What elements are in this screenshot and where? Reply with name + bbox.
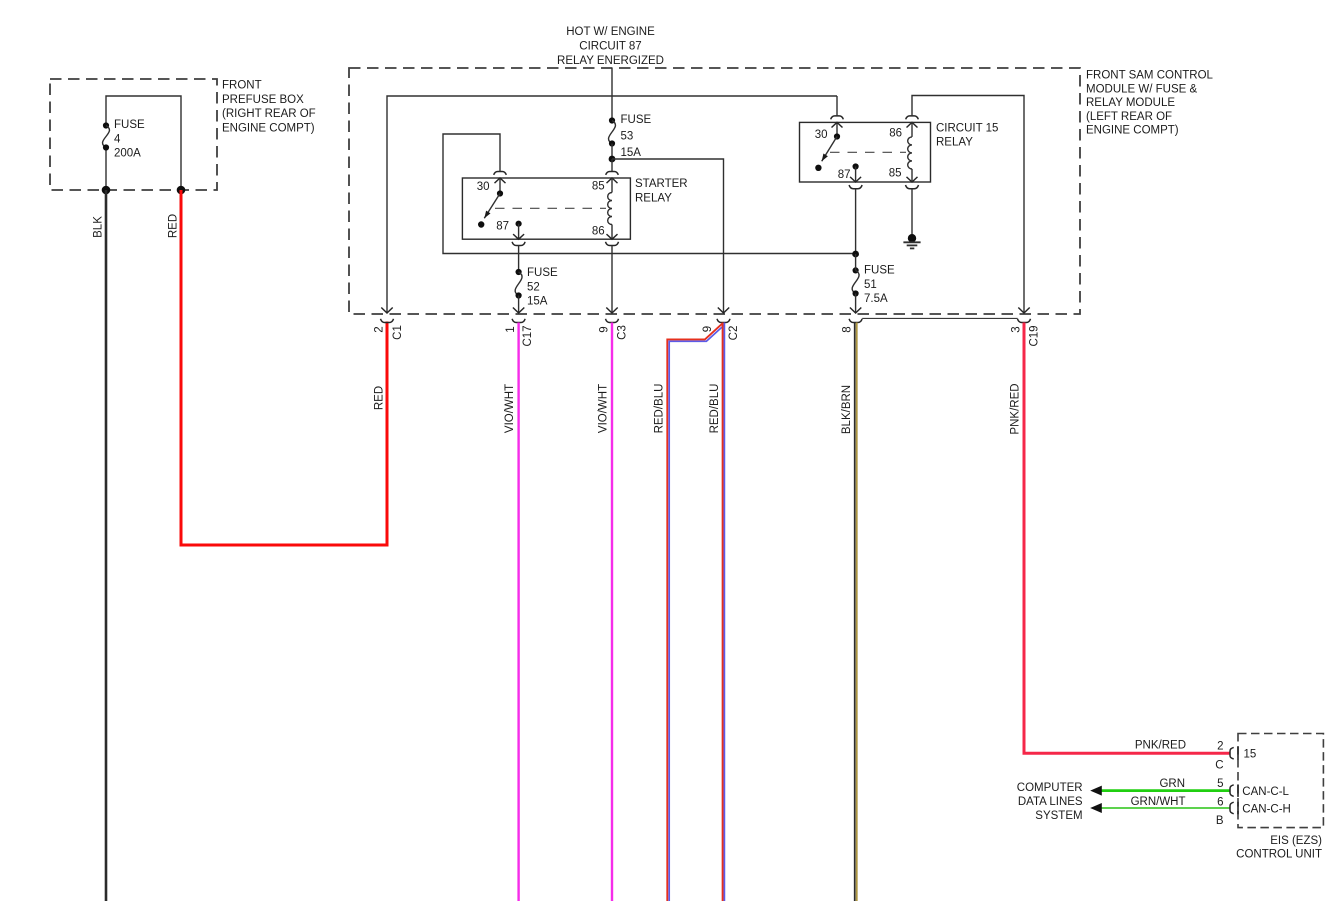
arrow into C1 [381, 308, 392, 314]
svg-text:1: 1 [505, 326, 517, 332]
svg-text:C2: C2 [728, 326, 740, 341]
svg-text:VIO/WHT: VIO/WHT [504, 384, 516, 433]
svg-text:CAN-C-H: CAN-C-H [1242, 803, 1291, 815]
svg-text:EIS (EZS): EIS (EZS) [1270, 835, 1322, 847]
svg-text:7.5A: 7.5A [864, 293, 888, 305]
svg-text:HOT W/ ENGINE: HOT W/ ENGINE [566, 26, 655, 38]
svg-text:RELAY: RELAY [635, 192, 672, 204]
EIS pin 5 terminal bar [1237, 784, 1239, 797]
wire RED (prefuse to C1) [181, 190, 387, 545]
connector C17 socket [512, 319, 525, 323]
arrow into C2 [718, 308, 729, 314]
arrow into C3 [606, 308, 617, 314]
arrow into pin 8 [850, 308, 861, 314]
EIS pin 2 terminal bar [1237, 747, 1239, 760]
wire fuse4 to node [105, 148, 107, 191]
svg-text:DATA LINES: DATA LINES [1018, 796, 1083, 808]
computer data lines label [1017, 782, 1083, 822]
wire bus circuit15-30 to C1 [387, 96, 837, 313]
svg-text:2: 2 [1217, 741, 1223, 753]
svg-text:C1: C1 [392, 325, 404, 340]
svg-text:PNK/RED: PNK/RED [1010, 383, 1022, 434]
fuse 52 value label [527, 267, 558, 308]
svg-text:86: 86 [889, 128, 902, 140]
circuit15 coil 86-85 [907, 122, 918, 182]
wire fuse51 to pin 8 [855, 294, 857, 314]
svg-text:30: 30 [815, 129, 828, 141]
svg-text:FUSE: FUSE [114, 119, 145, 131]
ground G1 [903, 234, 920, 248]
wire hot feed to fuse 53 [611, 68, 613, 121]
svg-text:B: B [1216, 815, 1224, 827]
wire BLK/BRN black [854, 323, 856, 901]
wire RED/BLU C2 branch blue [669, 325, 724, 901]
wire 87 to fuse51 node [855, 189, 857, 254]
svg-text:GRN: GRN [1159, 778, 1185, 790]
svg-text:RED/BLU: RED/BLU [709, 384, 721, 434]
fuse 53 value label [621, 114, 652, 159]
svg-text:85: 85 [592, 181, 605, 193]
svg-text:5: 5 [1217, 778, 1223, 790]
power source label HOT W/ ENGINE CIRCUIT 87 RELAY ENERGIZED [557, 26, 664, 67]
svg-text:C3: C3 [617, 325, 629, 340]
wire node F53 to starter relay 85 [611, 159, 613, 172]
svg-text:RED: RED [374, 386, 386, 410]
svg-text:VIO/WHT: VIO/WHT [598, 384, 610, 433]
fuse 53 (15A) [609, 117, 616, 146]
front SAM control module (dashed enclosure) [349, 68, 1080, 314]
svg-text:SYSTEM: SYSTEM [1035, 810, 1082, 822]
svg-text:CONTROL UNIT: CONTROL UNIT [1236, 849, 1322, 861]
starter relay 30 hook wire to fuse51 node [443, 134, 856, 254]
circuit15 86 top connector [906, 116, 919, 119]
connector C1 socket [381, 319, 394, 323]
front SAM module label [1086, 70, 1214, 137]
circuit 15 relay U2 box [800, 122, 931, 182]
svg-text:(RIGHT REAR OF: (RIGHT REAR OF [222, 108, 316, 120]
svg-text:87: 87 [838, 169, 851, 181]
svg-text:C17: C17 [522, 325, 534, 346]
wire GRN/WHT CAN-C-H [1101, 807, 1231, 809]
wire RED/BLU C2 down blue [723, 323, 725, 901]
svg-text:FRONT: FRONT [222, 80, 262, 92]
svg-text:RELAY MODULE: RELAY MODULE [1086, 97, 1175, 109]
starter relay U1 box [462, 178, 630, 239]
circuit 15 relay label [936, 122, 998, 148]
starter relay mech link (dashed) [495, 207, 606, 209]
wire node to fuse 51 [855, 254, 857, 270]
wire BLK [105, 190, 108, 901]
EIS pin 2 socket [1230, 747, 1234, 759]
wire 86 to C3 [611, 246, 613, 314]
svg-text:C19: C19 [1029, 325, 1041, 346]
svg-text:PREFUSE BOX: PREFUSE BOX [222, 94, 304, 106]
circuit15 switch arm [815, 133, 840, 171]
svg-text:8: 8 [842, 326, 854, 332]
svg-text:53: 53 [621, 130, 634, 142]
arrow into C17 [513, 308, 524, 314]
svg-text:87: 87 [496, 221, 509, 233]
EIS (EZS) control unit (dashed enclosure) [1238, 734, 1323, 828]
wire circuit15-30 stub [836, 96, 838, 116]
wire PNK/RED to EIS [1024, 323, 1230, 754]
starter relay terminal 30 connector [494, 172, 507, 194]
wire fuse 53 to node F53 [611, 144, 613, 160]
front prefuse box (dashed enclosure) [50, 79, 217, 190]
wire GRN CAN-C-L [1101, 789, 1231, 792]
svg-text:BLK/BRN: BLK/BRN [841, 385, 853, 434]
svg-text:3: 3 [1011, 326, 1023, 332]
wire circuit15-86 to C19 [912, 96, 1024, 314]
svg-text:52: 52 [527, 281, 540, 293]
arrow to data lines GRN/WHT [1090, 803, 1102, 813]
svg-text:RELAY: RELAY [936, 137, 973, 149]
svg-text:30: 30 [477, 181, 490, 193]
connector C3 socket [606, 319, 619, 323]
svg-text:85: 85 [889, 168, 902, 180]
svg-text:15A: 15A [527, 296, 548, 308]
svg-text:FUSE: FUSE [621, 114, 652, 126]
svg-text:FUSE: FUSE [864, 265, 895, 277]
svg-text:RELAY ENERGIZED: RELAY ENERGIZED [557, 55, 664, 67]
connector C2 socket [717, 319, 730, 323]
svg-text:86: 86 [592, 226, 605, 238]
svg-text:ENGINE COMPT): ENGINE COMPT) [1086, 125, 1179, 137]
svg-text:CAN-C-L: CAN-C-L [1242, 786, 1289, 798]
svg-text:ENGINE COMPT): ENGINE COMPT) [222, 122, 315, 134]
starter relay coil 85-86 [607, 178, 618, 239]
junction node fuse51 [852, 251, 859, 258]
starter relay 85 top connector [606, 172, 619, 175]
wire RED/BLU C2 down red [722, 323, 724, 901]
connector bracket pin8 to C19 [862, 317, 1017, 319]
arrow to data lines GRN [1090, 786, 1102, 796]
svg-text:9: 9 [702, 326, 714, 332]
starter relay terminal 87 wire [513, 221, 524, 240]
circuit15 85 bottom connector [906, 185, 919, 189]
junction node RED feed [177, 186, 186, 195]
starter relay switch arm [478, 190, 503, 227]
EIS pin 6 socket [1230, 802, 1234, 814]
wire BLK/BRN brown [856, 323, 858, 901]
svg-text:RED: RED [168, 214, 180, 238]
starter relay 86 bottom connector [606, 242, 619, 246]
starter relay 87 bottom connector [512, 242, 525, 246]
svg-text:COMPUTER: COMPUTER [1017, 782, 1083, 794]
svg-text:BLK: BLK [93, 216, 105, 238]
junction node BLK feed [102, 186, 111, 195]
starter relay label [635, 178, 688, 204]
svg-text:FUSE: FUSE [527, 267, 558, 279]
wire 87 to fuse 52 [518, 246, 520, 273]
connector C19 socket [1018, 319, 1031, 323]
svg-text:4: 4 [114, 133, 121, 145]
svg-text:MODULE W/ FUSE &: MODULE W/ FUSE & [1086, 83, 1198, 95]
arrow into C19 [1018, 308, 1029, 314]
svg-text:(LEFT REAR OF: (LEFT REAR OF [1086, 111, 1172, 123]
EIS control unit label [1236, 835, 1322, 861]
svg-text:9: 9 [599, 326, 611, 332]
svg-text:PNK/RED: PNK/RED [1135, 739, 1186, 751]
svg-text:6: 6 [1217, 796, 1223, 808]
svg-text:15: 15 [1244, 748, 1257, 760]
svg-text:2: 2 [374, 326, 386, 332]
fuse 52 (15A) [515, 269, 522, 299]
fuse 51 value label [864, 265, 895, 306]
circuit15 terminal 87 wire [850, 163, 861, 182]
fuse 51 (7.5A) [852, 267, 859, 296]
wire node F53 to C2 pin 9 [612, 159, 724, 313]
wire VIO/WHT C3 [611, 323, 613, 901]
circuit15 mech link (dashed) [830, 151, 906, 153]
wire VIO/WHT C17 [517, 323, 519, 901]
svg-text:200A: 200A [114, 148, 141, 160]
circuit15 terminal 30 connector [831, 116, 844, 137]
EIS pin 5 socket [1230, 785, 1234, 797]
svg-text:CIRCUIT 87: CIRCUIT 87 [579, 40, 641, 52]
svg-text:GRN/WHT: GRN/WHT [1131, 796, 1186, 808]
junction node F53 [609, 156, 616, 163]
fuse 4 value label [114, 119, 145, 160]
circuit15 87 bottom connector [849, 185, 862, 189]
wire fuse52 to C17 [518, 296, 520, 314]
fuse 4 (200A) [103, 122, 110, 150]
front prefuse box label [222, 80, 316, 135]
svg-text:CIRCUIT 15: CIRCUIT 15 [936, 122, 998, 134]
svg-text:C: C [1215, 760, 1223, 772]
svg-text:FRONT SAM CONTROL: FRONT SAM CONTROL [1086, 70, 1214, 82]
wire 85 to ground [911, 189, 913, 239]
connector pin 8 socket [849, 319, 862, 323]
EIS pin 6 terminal bar [1237, 802, 1239, 815]
svg-text:51: 51 [864, 279, 877, 291]
prefuse internal bus wire [106, 96, 181, 190]
wire RED/BLU C2 branch red [667, 323, 722, 901]
svg-text:STARTER: STARTER [635, 178, 688, 190]
svg-text:15A: 15A [621, 147, 642, 159]
svg-text:RED/BLU: RED/BLU [654, 384, 666, 434]
